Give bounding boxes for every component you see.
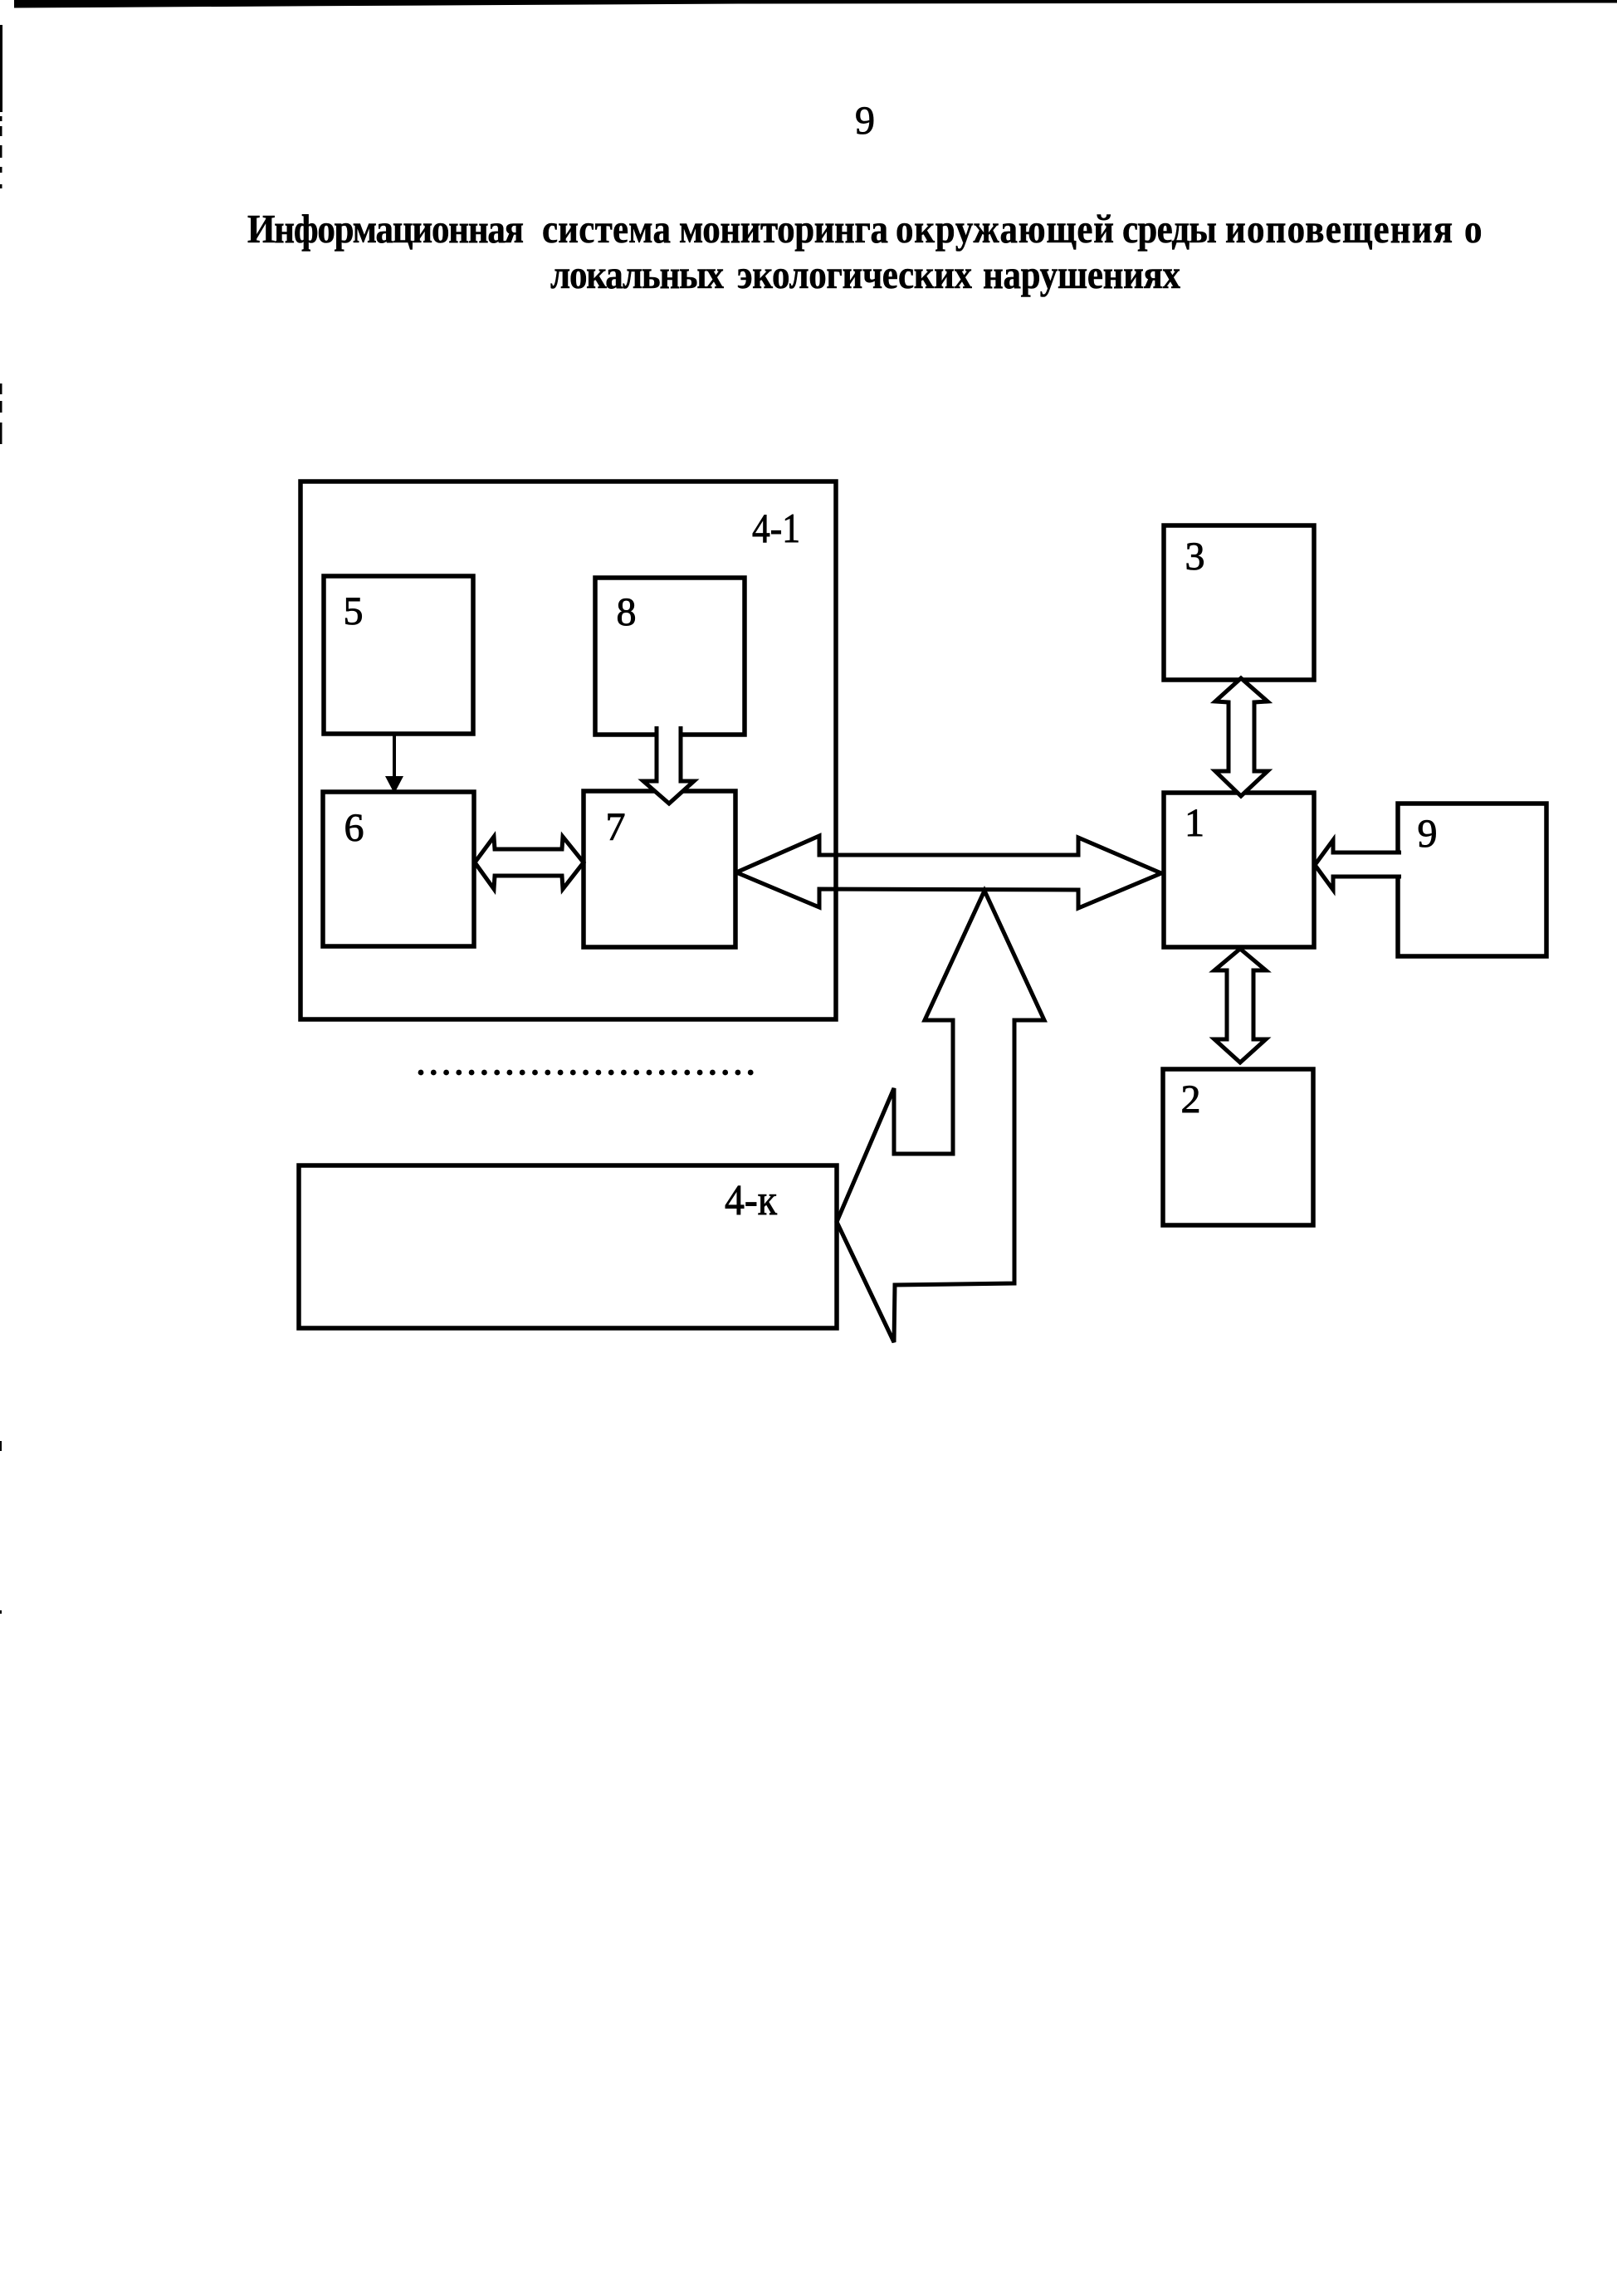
svg-text:6: 6 <box>344 806 364 850</box>
svg-text:2: 2 <box>1181 1077 1201 1121</box>
svg-text:8: 8 <box>617 590 637 634</box>
svg-text:система: система <box>542 207 671 252</box>
compound hollow arrow: up into bus, left into block 4-k <box>837 891 1044 1342</box>
arrow from block 5 to block 6 (thin, solid head) <box>393 734 396 778</box>
svg-text:о: о <box>1464 207 1482 252</box>
svg-text:1: 1 <box>1185 801 1204 845</box>
svg-text:нарушениях: нарушениях <box>983 252 1180 297</box>
svg-text:оповещения: оповещения <box>1247 207 1453 252</box>
scan artifact: left edge marks <box>0 25 2 1614</box>
svg-text:экологических: экологических <box>737 252 972 297</box>
svg-text:4-к: 4-к <box>725 1177 778 1224</box>
block 6 <box>323 792 474 946</box>
block 5 <box>324 576 473 734</box>
hollow arrow from block 9 to block 1 <box>1315 840 1401 890</box>
svg-text:4-1: 4-1 <box>752 505 800 551</box>
svg-text:среды: среды <box>1122 207 1217 252</box>
svg-text:мониторинга: мониторинга <box>679 207 888 252</box>
block 9 <box>1398 804 1546 956</box>
svg-text:9: 9 <box>855 99 875 143</box>
hollow double arrow between block 3 and block 1 <box>1215 678 1268 796</box>
scan artifact: top edge bar <box>14 0 1617 8</box>
svg-text:9: 9 <box>1418 812 1438 856</box>
title line 1 <box>247 207 1482 252</box>
block 4-k <box>299 1165 837 1328</box>
dotted separator line <box>418 1070 754 1076</box>
block 8 <box>595 578 745 735</box>
svg-text:Информационная: Информационная <box>247 207 524 252</box>
block 2 <box>1163 1069 1313 1225</box>
title line 2 <box>550 252 1180 297</box>
svg-text:3: 3 <box>1185 535 1205 579</box>
long double arrow between block 7 and block 1 (drawn under big box edge) <box>736 836 1161 908</box>
hollow double arrow between block 1 and block 2 <box>1214 949 1266 1063</box>
svg-text:и: и <box>1225 207 1246 252</box>
big box 4-1 <box>300 481 836 1019</box>
svg-text:окружающей: окружающей <box>896 207 1114 252</box>
svg-text:локальных: локальных <box>550 252 724 297</box>
block 3 <box>1164 525 1314 680</box>
block 7 <box>584 791 735 947</box>
svg-text:7: 7 <box>606 805 626 849</box>
block 1 <box>1164 793 1314 947</box>
svg-text:5: 5 <box>344 589 364 633</box>
hollow double arrow between block 6 and block 7 <box>475 837 584 889</box>
hollow down arrow from block 8 to block 7 <box>643 726 694 804</box>
